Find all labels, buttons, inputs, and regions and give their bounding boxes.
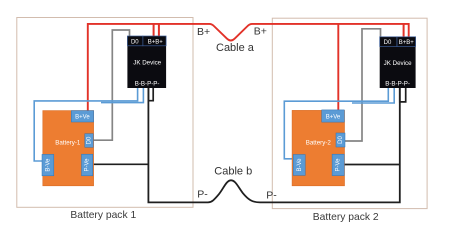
- battery B2 terminal B-Ve: [293, 155, 305, 176]
- svg-text:B-Ve: B-Ve: [297, 158, 303, 172]
- wire: blue JK2 B- pin1 to battery 2 B-Ve: [284, 88, 388, 159]
- svg-text:B+: B+: [197, 26, 210, 38]
- svg-text:Cable a: Cable a: [216, 42, 255, 54]
- wire: red drop cable a to JK1 B+ pin 2: [158, 24, 160, 36]
- JK device U2 (BMS, pack 2): [380, 37, 416, 88]
- battery B1 terminal P-Ve: [82, 154, 93, 176]
- svg-text:D0: D0: [87, 136, 93, 144]
- battery B1 terminal B+Ve: [71, 111, 93, 122]
- svg-text:D0: D0: [131, 39, 139, 45]
- svg-text:D0: D0: [384, 40, 392, 46]
- node label P- (right of cable b hump): [266, 189, 277, 201]
- svg-text:B-B-P-P-: B-B-P-P-: [135, 81, 160, 88]
- svg-text:D0: D0: [338, 136, 344, 144]
- wire: red cable a (B+ interconnect): [88, 24, 409, 111]
- wire: black cable b (P- interconnect): [148, 88, 399, 202]
- battery B2 body: [292, 110, 344, 185]
- svg-text:B-Ve: B-Ve: [45, 158, 51, 172]
- battery B1 terminal D0: [85, 134, 93, 148]
- node label P- (left of cable b hump): [197, 188, 208, 200]
- battery B1 body: [43, 111, 94, 186]
- svg-text:Battery-1: Battery-1: [55, 139, 81, 146]
- cable b label: [214, 165, 252, 177]
- node label B+ (right of cable a dip): [254, 25, 267, 37]
- svg-text:B+: B+: [254, 25, 267, 37]
- wire: battery 1 P-Ve to JK1 P-: [93, 163, 149, 165]
- wire: blue JK2 B- pin2 to battery 2 B-Ve: [352, 88, 394, 103]
- svg-text:B+Ve: B+Ve: [75, 114, 90, 120]
- svg-text:B+B+: B+B+: [148, 39, 164, 45]
- wire: gray battery 1 D0 to JK1 D0: [93, 30, 129, 140]
- svg-text:JK Device: JK Device: [133, 60, 161, 67]
- svg-text:Battery-2: Battery-2: [306, 139, 332, 146]
- wire: blue JK1 B- pin1 to battery 1 B-Ve: [34, 88, 137, 161]
- svg-text:P-: P-: [197, 188, 208, 200]
- wire: blue JK1 B- pin2 to battery 1 B-Ve: [101, 88, 143, 103]
- node label B+ (left of cable a dip): [197, 26, 210, 38]
- battery pack 1 enclosure box: [17, 18, 193, 208]
- svg-text:B+B+: B+B+: [399, 40, 415, 46]
- svg-text:JK Device: JK Device: [384, 60, 412, 67]
- battery pack 2 label: [313, 212, 379, 223]
- svg-text:P-: P-: [266, 189, 277, 201]
- wire: red drop cable a to battery 2 B+Ve: [337, 24, 339, 110]
- svg-text:P-Ve: P-Ve: [336, 158, 342, 172]
- battery B2 terminal B+Ve: [322, 110, 345, 122]
- wire: red drop cable a to JK1 B+ pin 1: [153, 24, 155, 36]
- svg-text:B-B-P-P-: B-B-P-P-: [385, 81, 410, 88]
- wire: battery 2 P-Ve to JK2 P-: [344, 164, 400, 166]
- wire: red drop cable a to JK2 B+ pin 1: [403, 25, 405, 37]
- svg-text:P-Ve: P-Ve: [85, 158, 91, 172]
- wire: gray battery 2 D0 to JK2 D0: [345, 29, 381, 141]
- svg-text:B+Ve: B+Ve: [326, 114, 341, 120]
- battery pack 1 label: [70, 210, 136, 221]
- wire: black jumper JK1 P- pins: [148, 88, 153, 101]
- battery B2 terminal D0: [336, 133, 345, 147]
- cable a label: [216, 42, 255, 54]
- JK device U1 (BMS, pack 1): [127, 36, 166, 88]
- svg-text:Cable b: Cable b: [214, 165, 252, 177]
- svg-text:Battery pack 1: Battery pack 1: [70, 210, 136, 221]
- battery B1 terminal B-Ve: [42, 154, 54, 175]
- svg-text:Battery pack 2: Battery pack 2: [313, 212, 379, 223]
- wire: black jumper JK2 P- pins: [400, 88, 406, 102]
- battery pack 2 enclosure box: [272, 18, 427, 208]
- battery B2 terminal P-Ve: [332, 154, 344, 175]
